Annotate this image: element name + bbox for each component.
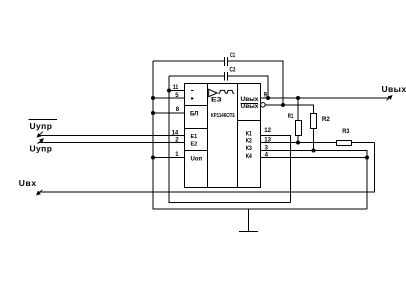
wire K1 output pin 12 down to rail 2 [261,136,291,203]
svg-text:13: 13 [264,138,271,144]
wire Uupr-inv input to pin 14 [38,135,185,137]
junction dots [151,89,369,160]
svg-text:R3: R3 [342,129,350,135]
pulse train symbol [218,90,234,93]
IC block divider right column [237,84,239,188]
svg-text:Uвых: Uвых [382,84,406,94]
IC left column cell divider 3 [185,150,208,152]
junction pin1/C1 bus [151,156,155,160]
wire K3 output pin 3 down to ground rail [261,151,368,210]
junction pin5/C1 bus [151,96,155,100]
IC block divider left column [207,84,209,188]
resistor R1 body [296,121,302,136]
overline for Uvyx-inv in block [241,103,259,105]
wire C2 right lead down to pin 9 net [228,76,269,98]
junction pin11/C2 bus [167,89,171,93]
junction pin8/C1 bus [151,111,155,115]
output arrow Uvyx [387,96,392,101]
svg-text:11: 11 [173,85,179,91]
svg-text:C1: C1 [230,53,236,59]
input arrow Uupr [38,139,44,144]
wire R2 bottom lead [313,129,315,151]
svg-text:Е3: Е3 [211,98,222,104]
resistor R3 body [337,141,352,146]
wire pin 11 stub [169,90,185,92]
junction R2 bottom / K3 wire [312,149,316,153]
svg-text:8: 8 [176,107,180,113]
IC block U1 outline [185,84,261,188]
svg-text:Е2: Е2 [191,141,198,147]
wire R1 top lead [297,98,299,121]
wire vertical bus from C2 down to rail 2 [169,76,291,203]
svg-text:Uупр: Uупр [30,144,53,154]
junction C1 / inverted output [281,103,285,107]
svg-text:Uвых: Uвых [241,103,259,110]
inversion bubble on Uvyx-inv output [261,103,266,108]
IC right column cell divider [238,120,261,122]
plus sign input label [191,97,194,99]
svg-text:Uвх: Uвх [19,178,37,188]
junction K4 wire / K3 vertical [365,156,369,160]
junction R1 top / pin9 net [296,96,300,100]
wire pin 5 stub [153,97,185,99]
input arrow Uupr-inv [37,132,43,137]
svg-text:R2: R2 [322,117,331,123]
op-amp triangle symbol [209,89,217,96]
wire pin 9 output to Uvyx [261,97,390,99]
svg-text:Uупр: Uупр [30,121,53,131]
junction C2/pin9 net [266,96,270,100]
capacitor C2 plates [224,72,226,81]
input arrow Uvx [37,190,43,195]
wire K2 output pin 13 to R3 [261,142,337,144]
svg-text:C2: C2 [230,68,237,74]
wire R3 right lead [352,142,375,144]
svg-text:14: 14 [172,130,179,136]
svg-text:Uоп: Uоп [191,157,203,163]
svg-text:К3: К3 [246,146,253,152]
svg-text:К2: К2 [246,139,253,145]
svg-text:R1: R1 [288,114,294,120]
svg-text:К4: К4 [246,154,253,160]
svg-text:Uвых: Uвых [241,96,259,103]
svg-text:12: 12 [264,128,271,134]
capacitor C1 plates [224,57,226,66]
IC left column cell divider 2 [185,128,208,130]
wire Uupr input to pin 2 [38,142,185,144]
wire C1 right lead to corner [228,61,284,105]
wire pin 1 stub [153,157,185,159]
overline for Uupr-inv label [29,119,58,121]
svg-text:Е1: Е1 [191,134,198,140]
svg-text:К1: К1 [246,132,253,138]
wire inverted output to R2 [265,105,313,114]
svg-text:КР1146СП1: КР1146СП1 [211,113,235,119]
junction R1 bottom / K2 wire [296,141,300,145]
wire pin 8 stub [153,112,185,114]
wire Uvx input rail under block to R3 [38,143,375,193]
wire C2 left lead [169,75,225,77]
IC left column cell divider 1 [185,105,208,107]
wire R1 bottom lead [297,136,299,143]
svg-text:БЛ: БЛ [190,112,198,118]
wire K4 output pin 4 [261,157,368,159]
wire C1 left lead [153,60,225,62]
wire vertical bus from C1 down to ground rail [153,61,367,209]
minus sign input label [191,89,194,91]
ground symbol [248,209,250,231]
resistor R2 body [311,114,317,129]
